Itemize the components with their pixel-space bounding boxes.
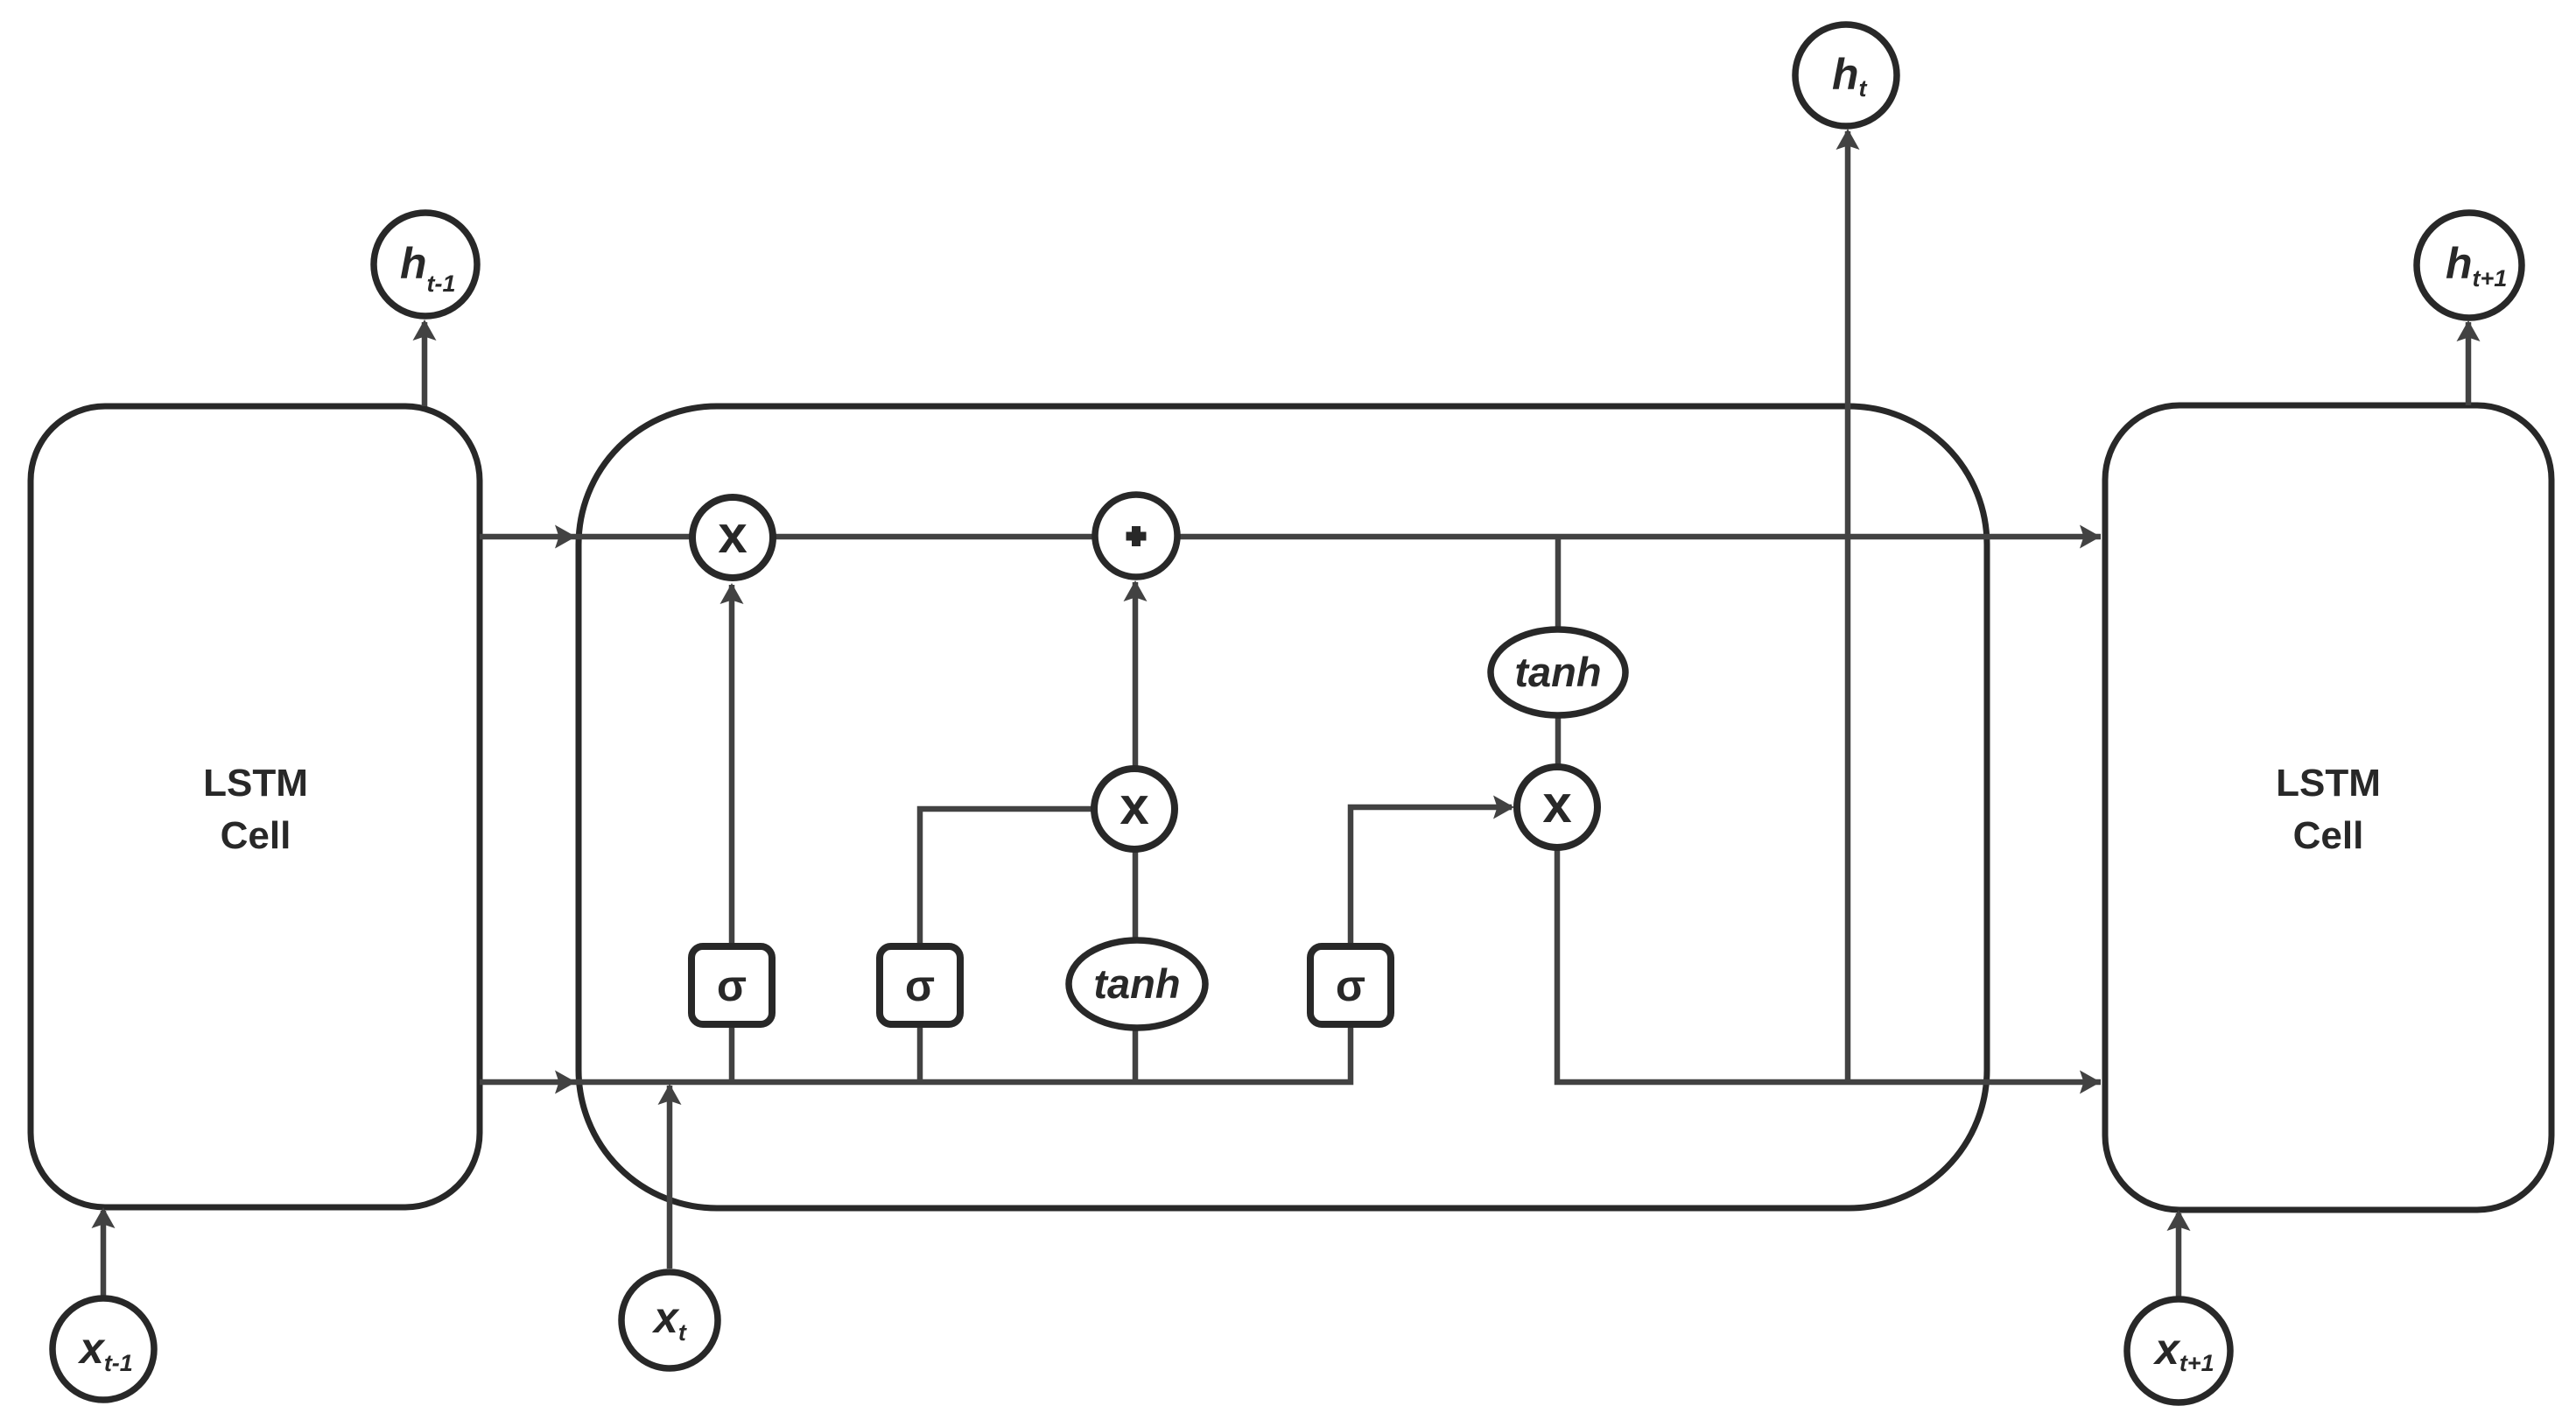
sigma gate 2 [880,946,960,1024]
gate X middle (input) [1094,769,1175,849]
wire tanh lower to middle X gate [1133,852,1139,943]
wire x_t-1 input arrow [101,1211,107,1297]
svg-text:LSTM: LSTM [203,762,308,805]
arrowhead into h_t+1 circle [2457,320,2481,341]
svg-text:LSTM: LSTM [2276,762,2381,805]
wire middle X gate to plus gate [1133,582,1139,766]
wire cell line to tanh upper [1555,537,1562,629]
node x_t [621,1272,718,1368]
node h_t+1 [2417,213,2522,318]
wire hidden-state output from right X gate [1557,850,2101,1082]
svg-text:tanh: tanh [1093,960,1180,1007]
arrowhead cell-state into right cell [2080,525,2101,549]
svg-text:Cell: Cell [2293,814,2364,857]
wire sigma3 elbow to right X gate [1351,807,1512,943]
arrowhead into right cell bottom [2167,1210,2191,1231]
sigma gate 1 [691,946,772,1024]
node x_t-1 [53,1298,154,1400]
wire cell-state line [480,534,2101,540]
node h_t-1 [374,213,477,316]
wire tanh upper to right X gate [1555,715,1562,764]
node h_t [1795,25,1897,126]
tanh ellipse lower [1069,940,1205,1028]
arrowhead into h_t-1 circle [413,320,437,341]
arrowhead into left cell bottom [92,1207,116,1228]
gate X1 (forget) [692,497,773,578]
wire tanh lower stub to hidden line [1133,1028,1139,1082]
gate plus [1095,495,1177,577]
left LSTM cell box [31,406,480,1207]
right LSTM cell box [2105,405,2551,1210]
svg-text:σ: σ [905,961,935,1010]
svg-text:σ: σ [1336,961,1365,1010]
middle LSTM cell body [579,406,1987,1208]
tanh ellipse upper [1491,629,1625,715]
wire sigma2 elbow to middle X gate [920,809,1091,943]
arrowhead into X1 gate [720,583,744,604]
svg-text:x: x [1542,775,1571,833]
svg-text:Cell: Cell [221,814,291,857]
arrowhead into h_t circle [1836,129,1860,150]
arrowhead into hidden line [658,1084,682,1105]
wire hidden-state line left part [480,1028,1351,1082]
wire h_t-1 output arrow [422,322,428,406]
arrowhead into plus gate [1124,580,1148,601]
wire sigma1 stub to hidden line [729,1028,735,1082]
wire h_t output riser [1845,131,1851,1082]
gate X right (output) [1517,767,1597,847]
wire x_t+1 input arrow [2176,1213,2182,1297]
wire x_t input arrow [667,1086,673,1269]
arrowhead hidden-state into right cell [2080,1071,2101,1094]
sigma gate 3 [1310,946,1391,1024]
svg-text:σ: σ [717,961,747,1010]
wire h_t+1 output arrow [2466,322,2472,405]
svg-text:x: x [1120,777,1148,835]
arrowhead into right X gate [1493,796,1514,819]
arrowhead cell-state into middle cell [555,525,576,549]
svg-text:x: x [718,505,747,564]
arrowhead hidden-state into middle cell [555,1071,576,1094]
wire sigma1 to X gate [729,585,735,943]
node x_t+1 [2127,1299,2230,1402]
wire sigma2 stub to hidden line [917,1028,923,1082]
svg-text:tanh: tanh [1514,649,1601,695]
